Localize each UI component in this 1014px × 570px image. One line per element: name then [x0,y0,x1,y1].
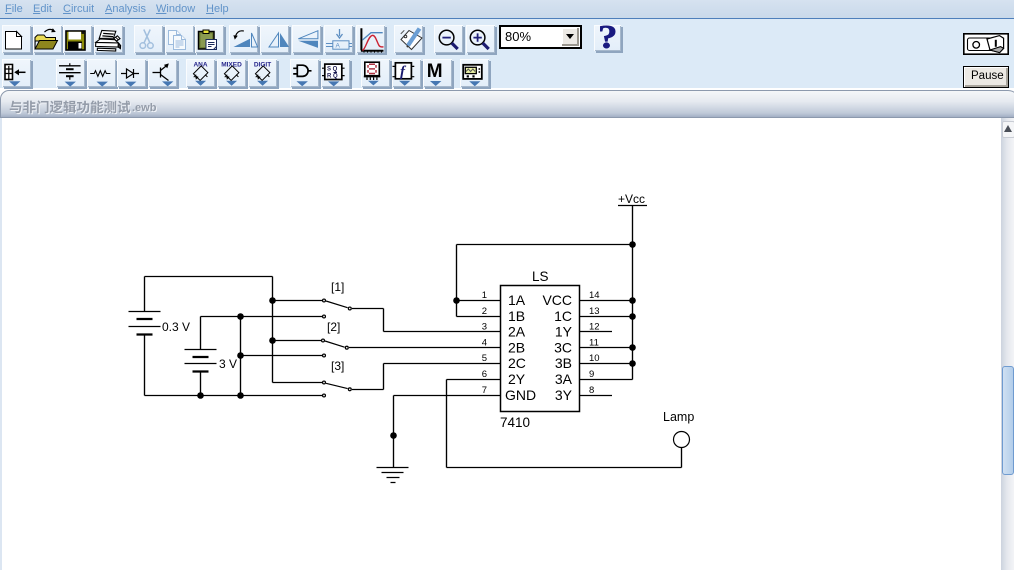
switch S2 throw contact [345,346,348,349]
wire S1 output to pin 3 [352,309,500,332]
svg-text:5: 5 [482,353,487,364]
svg-text:1Y: 1Y [555,324,573,340]
flip horizontal button [260,25,289,53]
wire switch S2 pole [273,340,322,342]
node pin 13 [629,313,636,320]
svg-text:1B: 1B [508,308,525,324]
wire pin 8 stub [580,395,612,397]
node switch column S2 [269,337,276,344]
IC U1 7410 body [501,286,580,412]
wire battery V1 top to node column [145,277,273,313]
svg-text:+Vcc: +Vcc [618,192,645,206]
node pin 14 [629,297,636,304]
svg-text:7: 7 [482,385,487,396]
wire pins 1-2 feed column [457,245,501,317]
IC U1 left pin names [505,292,536,403]
label 3 V [219,357,237,371]
IC U1 left pin numbers [482,290,487,396]
svg-text:3: 3 [482,322,487,333]
zoom combobox [499,25,582,49]
svg-text:12: 12 [589,322,600,333]
switch S1 throw contact [348,307,351,310]
battery V1 0.3V plates [129,312,161,335]
svg-text:1A: 1A [508,292,526,308]
miscellaneous bin button [423,59,452,87]
digital ICs bin button [248,59,277,87]
svg-text:1C: 1C [554,308,572,324]
label switch S1 [1] [331,280,344,294]
switch S1 pivot contact [323,299,326,302]
wire pin 9 [580,379,633,381]
battery V2 3V plates [185,350,217,372]
paste button [195,25,224,53]
wire switch pole column [272,277,274,383]
wire +Vcc bus vertical [632,206,634,380]
svg-text:3Y: 3Y [555,387,573,403]
switch S3 pivot contact [323,381,326,384]
wire pin 12 stub [580,331,612,333]
node switch column S1 [269,297,276,304]
node V2 top [237,313,244,320]
node middle column bottom [237,392,244,399]
label +Vcc [618,192,645,206]
node pin 1 feed [453,297,460,304]
wire battery V2 bottom stem [200,372,202,396]
svg-text:9: 9 [589,369,594,380]
label switch S3 [3] [331,359,344,373]
instruments bin button [460,59,489,87]
wire top feed to Vcc bus [457,244,633,246]
switch S1 lower contact [323,315,326,318]
properties button [394,25,423,53]
IC U1 right pin names [542,292,572,403]
svg-text:2: 2 [482,306,487,317]
svg-text:2C: 2C [508,355,526,371]
svg-text:[1]: [1] [331,280,344,294]
wire switch S3 pole [273,382,323,384]
controls bin button [392,59,421,87]
node pin 11 [629,344,636,351]
svg-text:3 V: 3 V [219,357,237,371]
rotate button [229,25,258,53]
IC U1 right pin numbers [589,290,600,396]
pause button [963,66,1009,88]
copy button (disabled) [165,25,194,53]
svg-text:13: 13 [589,306,600,317]
wire switch S2 lower contact [241,355,323,357]
subcircuit button [324,25,353,53]
save button [63,25,92,53]
label switch S2 [2] [327,320,340,334]
switch S3 lower contact [323,394,326,397]
switch S1 arm [326,301,348,308]
label 7410 [500,415,530,430]
svg-text:2Y: 2Y [508,371,526,387]
node Vcc bus top [629,241,636,248]
lamp X1 bulb [674,432,690,448]
wire middle node column [240,317,242,396]
svg-text:0.3 V: 0.3 V [162,320,190,334]
svg-text:Lamp: Lamp [663,410,694,424]
power switch [963,33,1009,55]
print button [94,25,123,53]
switch S3 throw contact [348,388,351,391]
wire pin 7 to ground [394,396,501,468]
wire battery V2 top to contact row [201,317,323,350]
ground symbol [377,468,409,483]
logic gates bin button [290,59,319,87]
wire pin 14 [580,300,633,302]
svg-text:3C: 3C [554,340,572,356]
svg-text:2A: 2A [508,324,526,340]
svg-text:[2]: [2] [327,320,340,334]
diodes bin button [117,59,146,87]
node pin 10 [629,360,636,367]
svg-text:3B: 3B [555,355,572,371]
zoom out button [434,25,463,53]
indicators bin button [361,59,390,87]
node ground wire [390,432,397,439]
analog ICs bin button [186,59,215,87]
wire S2 output to pin 4 [349,347,500,349]
svg-text:3A: 3A [555,371,573,387]
wire battery V1 bottom rail [145,335,323,396]
label 0.3 V [162,320,190,334]
wire pin 13 [580,316,633,318]
new button [2,25,31,53]
label Lamp [663,410,694,424]
svg-text:7410: 7410 [500,415,530,430]
+Vcc label underline [618,205,647,207]
svg-text:4: 4 [482,338,487,349]
open button [33,25,62,53]
svg-text:8: 8 [589,385,594,396]
svg-text:[3]: [3] [331,359,344,373]
svg-text:2B: 2B [508,340,525,356]
svg-text:10: 10 [589,353,600,364]
flip vertical button [292,25,321,53]
mixed ICs bin button [217,59,246,87]
wire pin 6 to lamp [447,380,682,468]
favorites bin button [2,59,31,87]
svg-text:6: 6 [482,369,487,380]
digital bin button [321,59,350,87]
node V2 bottom [197,392,204,399]
svg-text:VCC: VCC [542,292,572,308]
wire pin 10 [580,363,633,365]
node middle column S2 contact [237,352,244,359]
svg-text:GND: GND [505,387,536,403]
svg-text:11: 11 [589,338,599,349]
svg-text:14: 14 [589,290,600,301]
graphs button [356,25,385,53]
label LS [532,269,549,284]
switch S2 pivot contact [322,339,325,342]
basic bin button [87,59,116,87]
zoom in button [466,25,495,53]
sources bin button [56,59,85,87]
cut button (disabled) [134,25,163,53]
switch S2 arm [325,341,345,347]
help button [594,25,621,51]
svg-text:LS: LS [532,269,549,284]
svg-text:1: 1 [482,290,487,301]
wire switch S1 pole [273,300,323,302]
switch S3 arm [326,383,348,388]
wire pin 11 [580,347,633,349]
switch S2 lower contact [323,354,326,357]
transistors bin button [148,59,177,87]
wire S3 output to pin 5 [352,364,500,390]
